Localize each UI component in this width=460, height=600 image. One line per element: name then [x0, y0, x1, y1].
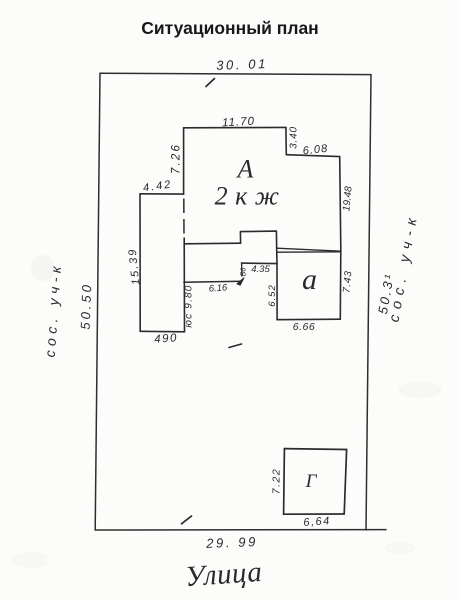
building A wall 6.08: [286, 155, 339, 157]
svg-text:6.66: 6.66: [293, 321, 315, 333]
garage Г left wall: [283, 449, 286, 515]
annex a wall 7.43 (right): [339, 249, 342, 319]
tick below 4.35 left end: [241, 263, 243, 276]
svg-text:7.22: 7.22: [271, 468, 283, 494]
building A wall 7.26: [183, 128, 185, 194]
svg-text:490: 490: [154, 332, 178, 346]
svg-text:7.26: 7.26: [171, 143, 183, 174]
interior wall right horizontal: [277, 248, 341, 251]
annex a wall 6.52 (left): [276, 264, 278, 320]
wall 4.35: [242, 262, 277, 265]
building A wall 3.40: [285, 127, 287, 154]
building A wall 4.42: [140, 193, 184, 195]
building A wall 19.48 (right): [340, 157, 341, 250]
svg-text:50.50: 50.50: [78, 282, 95, 330]
annex a wall 6.66 (bottom): [277, 318, 340, 321]
building A wall 4.90 (bottom): [140, 330, 184, 333]
svg-text:7.43: 7.43: [342, 270, 355, 294]
tick mark on bottom boundary: [182, 516, 192, 524]
building A wall 11.70 (top): [184, 126, 286, 128]
svg-text:Г: Г: [305, 471, 318, 492]
svg-text:6.52: 6.52: [267, 284, 278, 307]
building A wall 8.80 (inner left vertical): [183, 238, 185, 332]
interior divider above 4.35: [276, 250, 278, 264]
stray pen dash: [229, 344, 242, 348]
plot boundary left line: [95, 73, 100, 530]
svg-text:Ситуационный план: Ситуационный план: [141, 18, 319, 38]
svg-text:2кж: 2кж: [215, 182, 287, 211]
svg-text:А: А: [236, 155, 254, 184]
svg-text:3.40: 3.40: [289, 126, 300, 149]
svg-text:6,64: 6,64: [303, 515, 331, 529]
svg-text:Б6: Б6: [241, 268, 248, 277]
svg-text:4.35: 4.35: [251, 264, 270, 275]
garage Г bottom wall: [284, 513, 345, 515]
svg-text:11.70: 11.70: [222, 116, 256, 130]
interior wall bump: [240, 231, 276, 250]
svg-text:а: а: [302, 263, 317, 296]
svg-text:29. 99: 29. 99: [205, 534, 258, 551]
svg-text:19.48: 19.48: [341, 185, 354, 211]
svg-text:Улица: Улица: [184, 556, 263, 593]
plot boundary bottom line: [95, 529, 386, 531]
garage Г right wall: [344, 450, 346, 515]
interior wall left horizontal: [184, 242, 240, 245]
svg-text:6.16: 6.16: [208, 282, 228, 294]
plot boundary top line: [100, 73, 371, 74]
svg-text:юс 9.80: юс 9.80: [184, 284, 195, 327]
wall 6.16 with arrow: [184, 281, 241, 282]
garage Г top wall: [284, 448, 346, 451]
svg-text:30. 01: 30. 01: [216, 56, 268, 73]
tick mark on top boundary: [206, 79, 215, 87]
plot boundary right line: [366, 75, 371, 530]
building A wall 15.39 (far left): [139, 194, 141, 331]
dashed interior wall: [183, 199, 185, 237]
